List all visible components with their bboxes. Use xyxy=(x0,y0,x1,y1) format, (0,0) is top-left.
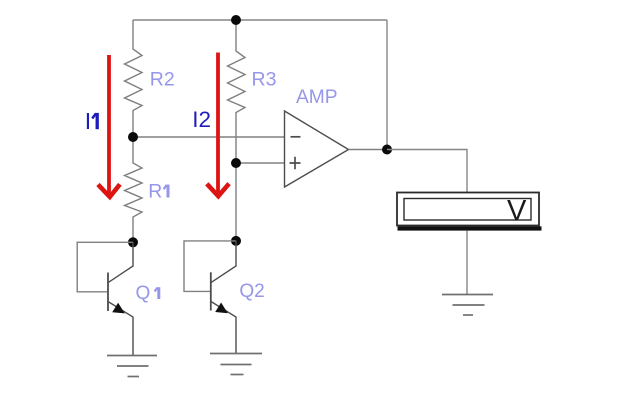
resistor R2 xyxy=(125,20,143,137)
node top rail junction xyxy=(231,15,241,25)
transistor Q1 xyxy=(108,242,133,355)
resistor R1 xyxy=(125,137,143,242)
node Q1 collector junction xyxy=(128,237,138,247)
ground voltmeter xyxy=(442,295,493,316)
node non-inverting input junction xyxy=(231,158,241,168)
svg-text:Q: Q xyxy=(136,283,151,304)
node inverting input junction xyxy=(128,132,138,142)
wire R3 branch to Q2 xyxy=(235,163,237,241)
svg-text:I: I xyxy=(85,108,91,134)
voltmeter V xyxy=(397,193,542,231)
svg-text:R: R xyxy=(148,181,162,203)
wire output to voltmeter xyxy=(387,150,467,193)
transistor Q2 xyxy=(211,241,236,354)
ground Q1 xyxy=(107,356,157,377)
svg-text:V: V xyxy=(507,195,527,227)
wire inverting input xyxy=(133,136,285,138)
svg-text:R2: R2 xyxy=(150,69,175,91)
node Q2 collector junction xyxy=(231,236,241,246)
wire non-inverting input xyxy=(236,162,285,164)
current arrow I1 xyxy=(98,55,120,197)
svg-text:I2: I2 xyxy=(192,107,211,132)
svg-text:R3: R3 xyxy=(252,69,277,91)
op-amp U1 AMP xyxy=(285,111,349,187)
wire voltmeter to ground xyxy=(466,231,468,295)
ground Q2 xyxy=(210,354,262,375)
wire feedback right vertical xyxy=(386,20,388,150)
node output junction xyxy=(382,145,392,155)
wire op-amp output xyxy=(349,149,388,151)
resistor R3 xyxy=(228,20,246,163)
current arrow I2 xyxy=(207,53,229,197)
svg-text:AMP: AMP xyxy=(296,87,338,108)
svg-text:Q2: Q2 xyxy=(239,281,264,302)
wire top supply rail xyxy=(133,19,387,21)
wire Q1 collector-base loop xyxy=(77,242,133,291)
wire Q2 collector-base loop xyxy=(184,241,236,292)
